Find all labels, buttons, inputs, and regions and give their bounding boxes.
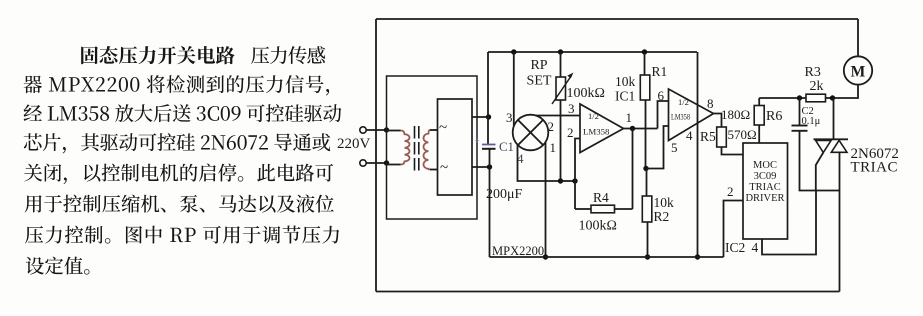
wire: snubber rail R6 to motor <box>759 97 806 99</box>
wire: R6 bottom lead to MOC top <box>758 125 760 143</box>
node: rectifier+/C1 junction <box>486 114 491 119</box>
svg-text:SET: SET <box>527 74 552 89</box>
svg-text:1: 1 <box>626 110 633 125</box>
svg-text:2: 2 <box>548 119 555 134</box>
node: R1/R2 divider <box>643 166 648 171</box>
capacitor C2 top lead <box>799 98 801 126</box>
svg-text:R1: R1 <box>652 64 668 79</box>
resistor R1 <box>640 75 650 100</box>
wire: C1 negative lead down to ground rail <box>489 149 491 257</box>
resistor R5 <box>717 127 727 147</box>
wire: bottom return rail <box>376 291 840 293</box>
svg-text:1/2: 1/2 <box>588 111 599 121</box>
svg-text:5: 5 <box>671 140 678 155</box>
wire: sensor pin 1 down to ground rail <box>545 143 547 258</box>
node: R3 left / C2 <box>797 95 802 100</box>
svg-text:C1: C1 <box>499 140 514 154</box>
svg-text:2: 2 <box>727 184 734 199</box>
svg-text:LM358: LM358 <box>671 113 690 122</box>
node: setpoint/R4 branch <box>572 178 577 183</box>
svg-text:M: M <box>851 64 866 81</box>
svg-text:~: ~ <box>439 120 447 136</box>
svg-text:3: 3 <box>568 101 575 116</box>
svg-text:R3: R3 <box>805 65 821 80</box>
wire: divider node down to R2 <box>646 169 648 197</box>
wire: rectifier + output to C1 node <box>472 116 489 118</box>
svg-text:0.1μ: 0.1μ <box>802 116 821 127</box>
svg-text:R2: R2 <box>654 209 670 224</box>
potentiometer RP arrow <box>552 76 572 105</box>
resistor R4 <box>591 205 615 213</box>
wire: U1a output <box>624 128 658 130</box>
wire: MOC pin 4 to gate node <box>762 191 816 255</box>
wire: triac MT2 lead down to bottom rail <box>839 153 841 292</box>
svg-text:LM358: LM358 <box>583 127 610 137</box>
svg-text:4: 4 <box>752 240 759 255</box>
wire: MOC pin 2 to ground rail <box>724 201 744 258</box>
svg-text:+: + <box>475 136 480 146</box>
op-amp U1b 1/2 LM358 triangle <box>669 89 714 141</box>
wire: ground rail <box>490 256 724 258</box>
node: rail/R1 <box>642 49 647 54</box>
description paragraph (Chinese, vectorized) <box>24 46 342 275</box>
node: rail/RP pot <box>558 49 563 54</box>
transformer core <box>415 126 419 173</box>
wire: R2 bottom lead to ground rail <box>647 222 649 257</box>
terminal: 220V bottom <box>360 160 366 166</box>
wire: divider node to U1b pin 5 <box>646 126 669 169</box>
node: pin1/ground rail <box>543 254 548 259</box>
wire: RP top lead <box>560 52 562 77</box>
transformer T1 enclosure box <box>387 76 478 219</box>
svg-text:R4: R4 <box>593 190 609 205</box>
resistor R3 <box>806 94 826 102</box>
wire: U1b output to R5 <box>714 114 722 128</box>
svg-text:MOC: MOC <box>753 160 777 171</box>
sensor bridge X <box>518 120 543 145</box>
wire: C2 bottom lead to gate node <box>800 131 840 191</box>
svg-text:DRIVER: DRIVER <box>745 193 784 204</box>
transformer secondary winding <box>430 129 438 131</box>
wire: motor bottom lead to R3 node <box>834 85 858 98</box>
svg-text:180Ω: 180Ω <box>721 107 750 122</box>
svg-text:2k: 2k <box>810 79 824 94</box>
wire: R4 right lead <box>615 208 633 210</box>
wire: setpoint node to inverting branch <box>561 180 576 182</box>
wire: outer border left edge (mains L/N vertical) <box>375 19 377 292</box>
svg-text:100kΩ: 100kΩ <box>567 86 605 101</box>
motor M <box>844 56 872 84</box>
node: rail/sensor pin3 <box>511 49 516 54</box>
svg-text:TRIAC: TRIAC <box>749 182 781 193</box>
svg-text:220V: 220V <box>337 136 371 152</box>
svg-text:R5: R5 <box>700 129 716 144</box>
node: junction top terminal / transformer box <box>384 127 389 132</box>
svg-text:8: 8 <box>707 96 714 111</box>
potentiometer RP body <box>556 77 566 100</box>
wire: V+/V- vertical through U1b (pins 8/4) <box>697 52 699 257</box>
wire: sensor pin 4 down to setpoint node <box>518 145 561 181</box>
resistor R2 <box>642 196 652 222</box>
wire: triac MT1 lead <box>833 98 835 139</box>
node: junction bottom terminal / transformer box <box>384 160 389 165</box>
wire: U1a pin2 input branch <box>575 139 580 210</box>
svg-text:R6: R6 <box>766 109 782 124</box>
node: RP/setpoint node <box>558 178 563 183</box>
triac 2N6072 symbol <box>814 138 849 140</box>
svg-text:1: 1 <box>550 140 557 155</box>
svg-text:2: 2 <box>567 125 574 140</box>
svg-text:100kΩ: 100kΩ <box>579 219 617 234</box>
svg-text:IC1: IC1 <box>615 89 635 104</box>
wire: R4 left lead <box>575 208 591 210</box>
svg-text:6: 6 <box>658 88 665 103</box>
wire: triac gate <box>816 153 824 191</box>
svg-text:TRIAC: TRIAC <box>851 160 899 176</box>
svg-text:IC2: IC2 <box>725 240 745 255</box>
wire: R1 top lead <box>644 52 646 75</box>
wire: sensor pin 2 to op-amp pin 3 input <box>536 115 580 117</box>
pressure sensor MPX2200 bridge circle <box>513 115 549 151</box>
node: rectifier-/C1 junction <box>487 164 492 169</box>
wire: top terminal to transformer <box>366 129 387 131</box>
optocoupler IC2 MOC 3C09 TRIAC DRIVER box <box>743 143 788 239</box>
wire: V+ riser from rectifier to top rail <box>487 52 489 144</box>
node: R2/ground rail <box>645 254 650 259</box>
capacitor C1 plates <box>482 144 496 146</box>
op-amp U1a 1/2 LM358 triangle <box>580 104 624 153</box>
svg-text:10k: 10k <box>654 195 675 210</box>
transformer primary winding <box>387 130 401 132</box>
wire: R1 bottom lead to divider node <box>645 100 647 169</box>
svg-text:RP: RP <box>530 58 547 73</box>
wire: U1a out up to U1b pin 6 <box>658 101 669 129</box>
rectifier bridge box <box>438 99 473 195</box>
svg-text:MPX2200: MPX2200 <box>492 244 544 258</box>
wire: R6 top lead to snubber node <box>758 98 760 106</box>
wire: bottom terminal to transformer <box>366 162 387 164</box>
terminal: 220V top <box>360 127 366 133</box>
svg-text:~: ~ <box>440 160 448 176</box>
wire: R4 feedback riser <box>632 129 634 210</box>
resistor R6 <box>754 106 764 126</box>
svg-text:10k: 10k <box>615 74 636 89</box>
wire: motor feed drop <box>857 19 859 57</box>
wire: top supply rail to motor <box>376 18 858 20</box>
svg-text:3: 3 <box>506 110 513 125</box>
svg-text:3C09: 3C09 <box>754 171 777 182</box>
node: R3 right / triac MT1 <box>830 95 835 100</box>
svg-text:4: 4 <box>686 128 693 143</box>
wire: R5 bottom to MOC pin 1 <box>722 147 744 155</box>
wire: rectifier - output to C1 negative <box>472 166 490 168</box>
wire: R3 right to triac <box>826 97 835 99</box>
node: U1a output/R4 feedback <box>630 126 635 131</box>
node: U1b pin4/ground rail <box>695 254 700 259</box>
wire: RP lower lead to setpoint node <box>560 100 562 181</box>
svg-text:200μF: 200μF <box>486 187 523 202</box>
wire: sensor pin 3 feed <box>513 52 515 126</box>
svg-text:1/2: 1/2 <box>678 97 689 107</box>
capacitor C2 plates <box>792 125 808 127</box>
wire: DC supply rail <box>488 51 697 53</box>
